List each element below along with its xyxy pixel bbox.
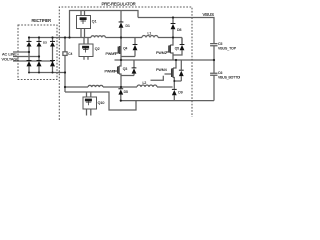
svg-text:D5: D5	[124, 90, 128, 94]
svg-text:Q2: Q2	[95, 47, 100, 51]
svg-text:VBUS_BOTTOM: VBUS_BOTTOM	[218, 76, 240, 80]
svg-text:Q3: Q3	[123, 67, 128, 71]
svg-text:C4: C4	[68, 52, 72, 56]
svg-text:D1: D1	[126, 24, 130, 28]
svg-text:C5: C5	[218, 42, 222, 46]
svg-text:Q4: Q4	[123, 47, 127, 51]
svg-text:PRE-REGULATOR: PRE-REGULATOR	[102, 2, 136, 7]
svg-text:VBUS: VBUS	[203, 12, 215, 17]
svg-text:D9: D9	[178, 90, 182, 94]
svg-text:D3: D3	[43, 41, 47, 45]
svg-text:PWM4: PWM4	[156, 68, 167, 72]
svg-text:D8: D8	[177, 28, 181, 32]
svg-text:C6: C6	[218, 71, 222, 75]
svg-text:PWM2: PWM2	[156, 51, 167, 55]
svg-text:L1: L1	[148, 32, 152, 36]
svg-text:L2: L2	[143, 81, 147, 85]
svg-text:PWM3: PWM3	[105, 69, 116, 73]
svg-text:PWM1: PWM1	[106, 52, 117, 56]
svg-text:Q10: Q10	[98, 101, 105, 105]
svg-text:Q1: Q1	[92, 20, 97, 24]
svg-text:VOLTAGE: VOLTAGE	[2, 57, 20, 61]
svg-text:VBUS_TOP: VBUS_TOP	[218, 47, 237, 51]
svg-text:AC LINE: AC LINE	[2, 52, 17, 56]
svg-text:Q5: Q5	[175, 47, 179, 51]
svg-text:RECTIFIER: RECTIFIER	[32, 18, 52, 23]
